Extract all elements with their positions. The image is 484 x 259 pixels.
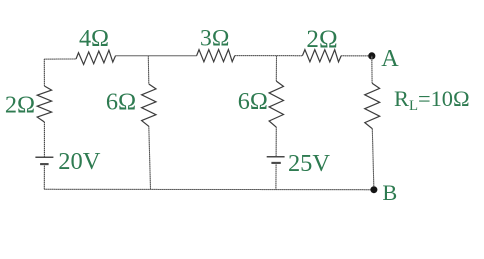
svg-text:A: A: [381, 45, 399, 72]
resistor 3 ohm: [197, 50, 235, 62]
resistor 2 ohm left: [37, 86, 51, 122]
resistor 6 ohm first: [142, 84, 156, 126]
svg-text:2Ω: 2Ω: [5, 91, 35, 118]
wire top to node A: [341, 55, 372, 57]
battery 20V short plate: [40, 163, 49, 165]
svg-text:20V: 20V: [58, 148, 101, 175]
svg-text:RL=10Ω: RL=10Ω: [394, 86, 470, 114]
wire top-left segment: [44, 58, 76, 60]
svg-text:4Ω: 4Ω: [79, 25, 109, 52]
resistor 6 ohm second: [269, 81, 283, 127]
wire branch2 vertical middle: [275, 127, 277, 157]
wire branch1 vertical top: [147, 56, 150, 84]
wire bottom: [44, 188, 374, 190]
resistor 4 ohm: [76, 50, 116, 64]
battery 20V long plate: [35, 156, 53, 158]
resistor 2 ohm top: [302, 50, 341, 62]
wire branch1 vertical bottom: [149, 126, 151, 189]
svg-text:B: B: [382, 180, 397, 205]
wire top between 3ohm and 2ohm: [235, 55, 303, 57]
wire left vertical top: [43, 59, 45, 86]
node A dot: [368, 52, 375, 59]
wire left vertical middle: [43, 122, 45, 157]
resistor RL 10 ohm: [365, 83, 380, 129]
wire node A to RL: [371, 56, 373, 83]
battery 25V long plate: [267, 156, 285, 158]
wire branch2 vertical top: [275, 56, 277, 81]
wire top between 4ohm and 3ohm: [116, 55, 197, 57]
svg-text:3Ω: 3Ω: [200, 25, 229, 51]
battery 25V short plate: [271, 162, 280, 164]
node B dot: [370, 186, 377, 193]
wire left vertical bottom: [43, 164, 45, 189]
svg-text:6Ω: 6Ω: [238, 88, 268, 115]
wire RL to node B: [372, 129, 374, 190]
wire branch2 vertical bottom: [275, 163, 277, 190]
svg-text:25V: 25V: [288, 150, 330, 177]
svg-text:6Ω: 6Ω: [106, 88, 136, 115]
svg-text:2Ω: 2Ω: [306, 26, 337, 53]
